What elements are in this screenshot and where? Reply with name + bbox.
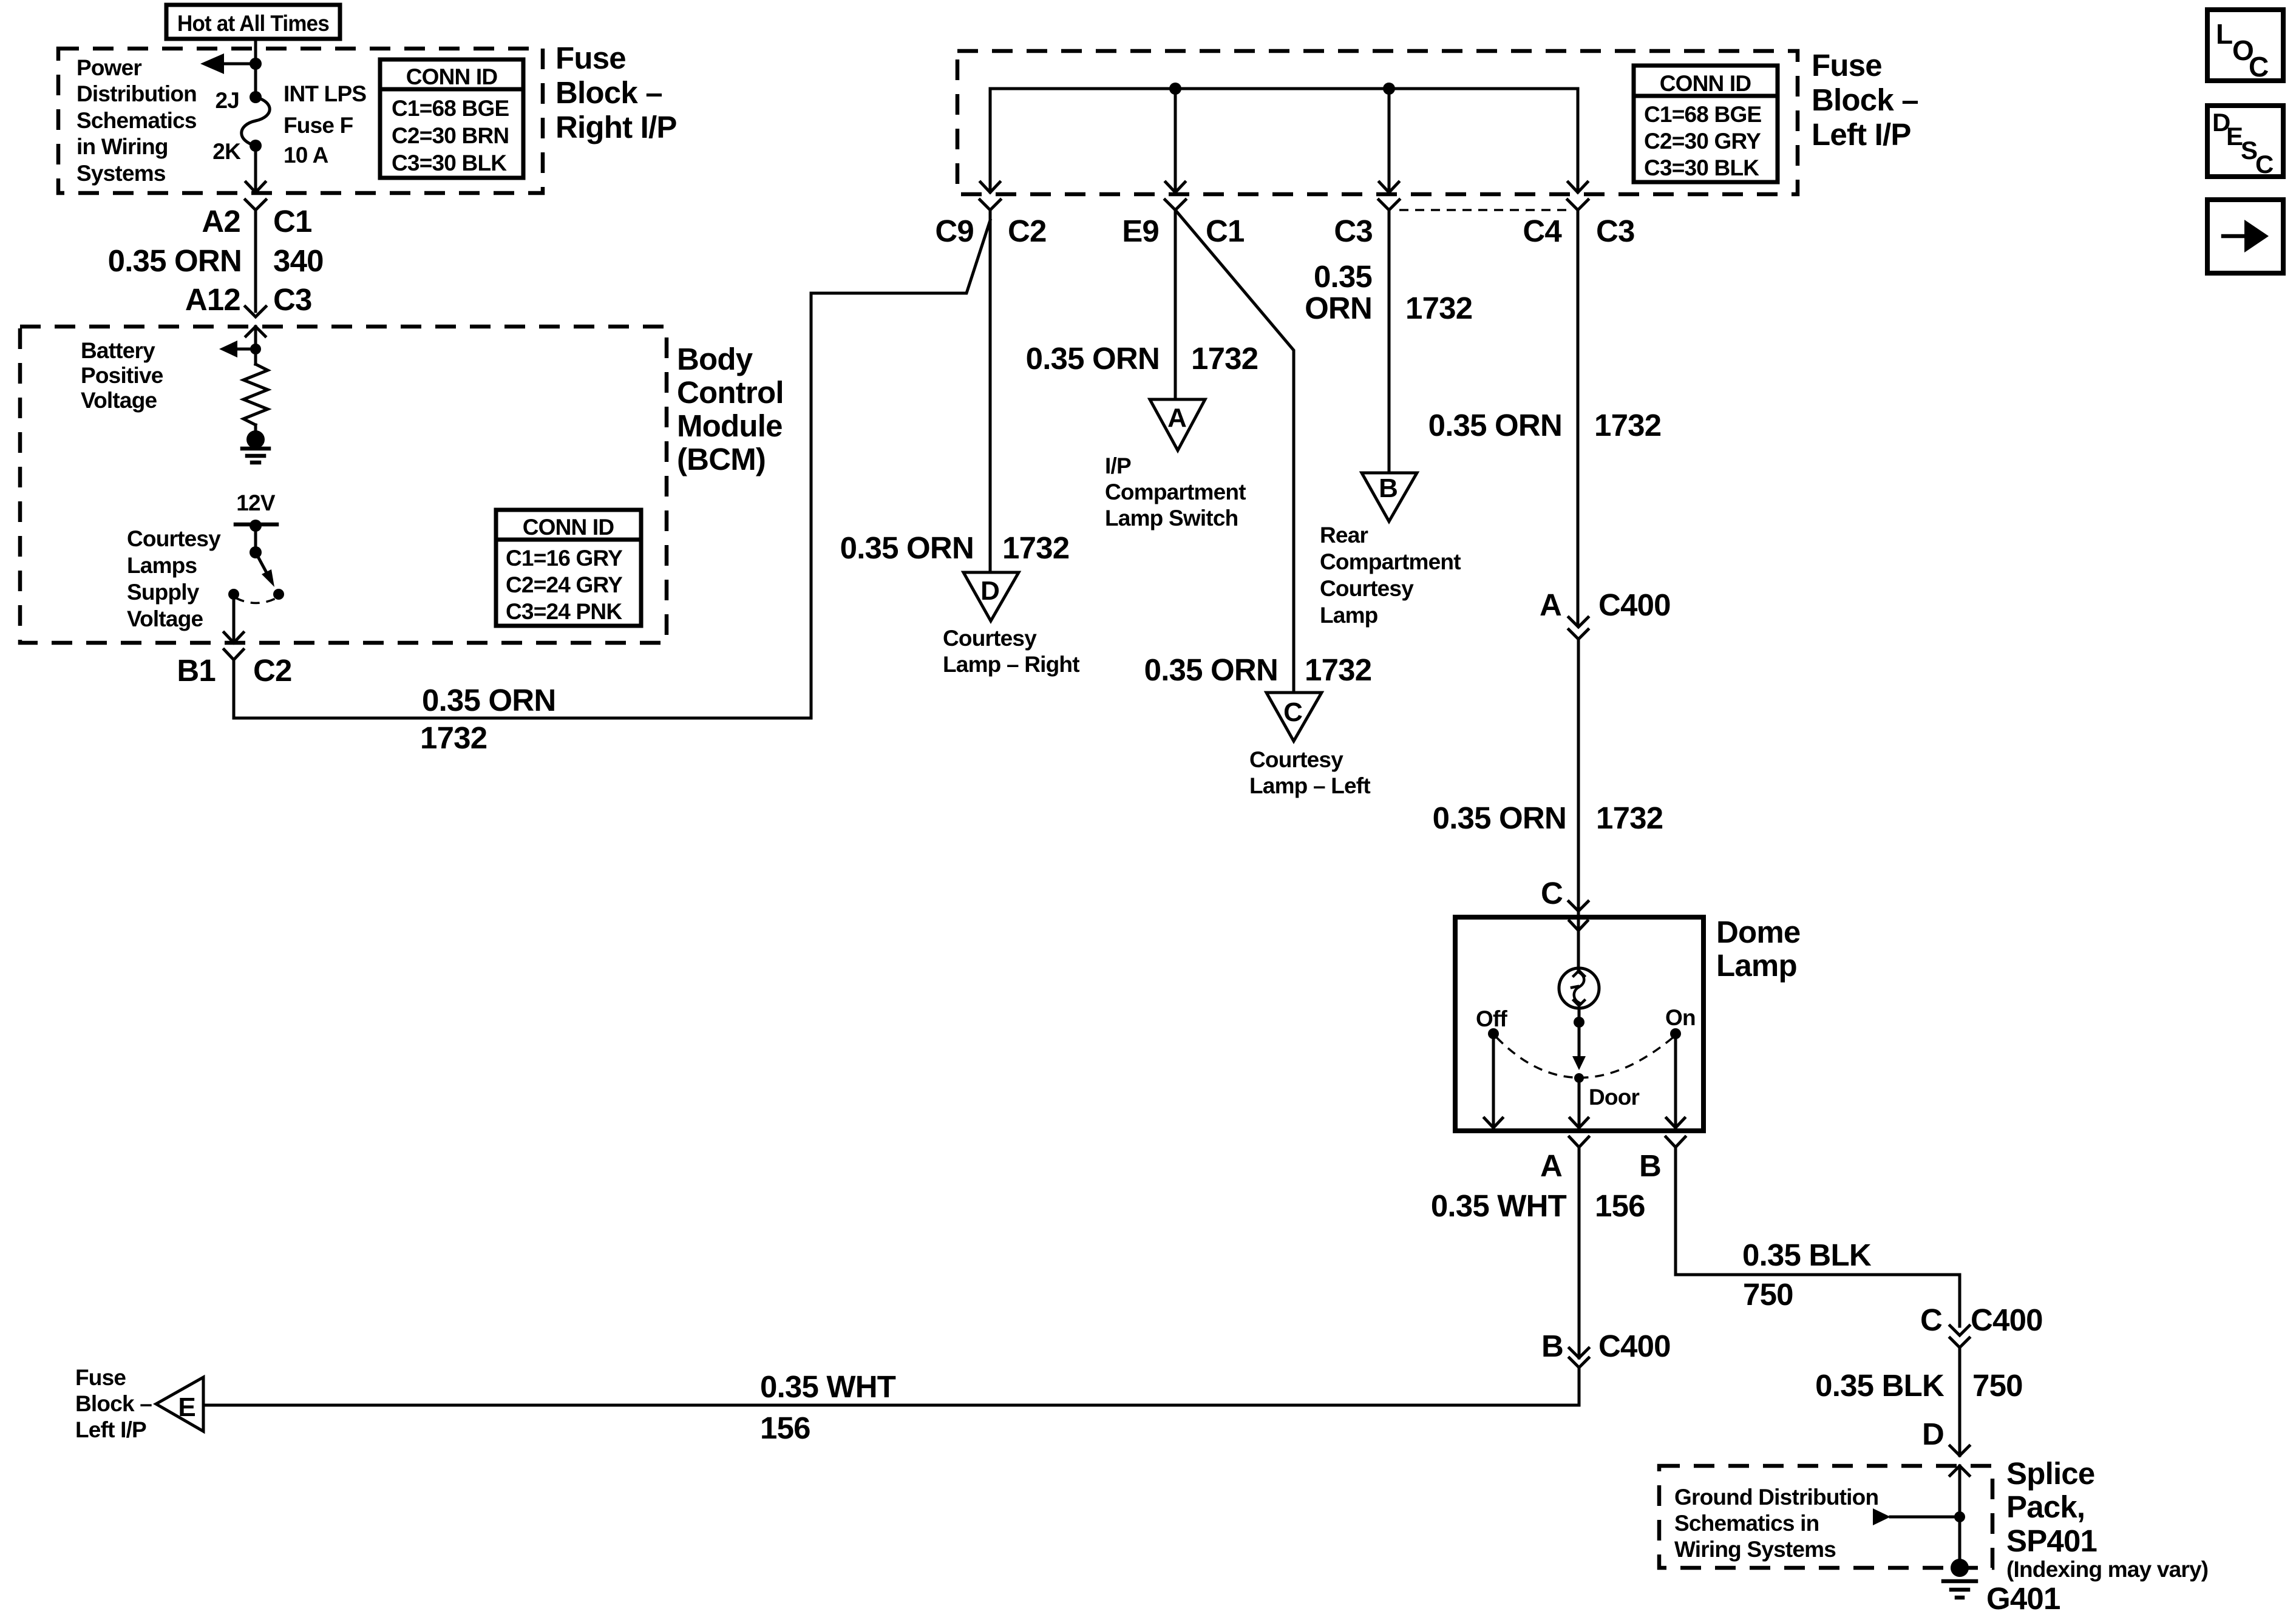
svg-text:C: C	[1541, 876, 1563, 910]
svg-text:1732: 1732	[1594, 408, 1661, 442]
svg-text:INT LPS: INT LPS	[284, 81, 366, 106]
wire: pin B down and right to C/C400	[1676, 1147, 1960, 1326]
svg-text:C4: C4	[1523, 214, 1562, 248]
svg-text:C2=30 GRY: C2=30 GRY	[1644, 129, 1761, 154]
svg-text:D: D	[1922, 1417, 1944, 1451]
junction node battery positive	[250, 344, 261, 354]
in-line connector B / C400	[1569, 1348, 1589, 1358]
svg-text:Fuse: Fuse	[75, 1365, 126, 1390]
svg-text:C400: C400	[1598, 1329, 1671, 1363]
wire: long 0.35 WHT 156 run to fuse block left	[205, 1404, 1579, 1407]
connector arrow exiting BCM at B1 (down)	[224, 632, 243, 643]
svg-text:156: 156	[1595, 1188, 1645, 1223]
wire: splice pack internal	[1958, 1466, 1961, 1568]
svg-text:Systems: Systems	[76, 161, 166, 186]
svg-text:Fuse: Fuse	[1812, 48, 1882, 83]
wire: Off contact to box edge	[1492, 1038, 1495, 1128]
connector female half pin B	[1666, 1137, 1685, 1147]
svg-text:C3: C3	[273, 282, 312, 317]
svg-text:Lamp – Left: Lamp – Left	[1249, 773, 1370, 798]
wire: branch to battery positive voltage	[237, 348, 256, 351]
wire: resistor to ground	[254, 425, 257, 433]
connector male chevron at D wire end	[1950, 1446, 1969, 1456]
connector female half C9	[980, 200, 1000, 210]
svg-text:Off: Off	[1476, 1006, 1508, 1031]
svg-text:CONN ID: CONN ID	[523, 515, 614, 540]
svg-text:0.35 ORN: 0.35 ORN	[1026, 341, 1160, 376]
svg-text:E9: E9	[1122, 214, 1159, 248]
wire: C400 to dome lamp	[1577, 639, 1580, 911]
junction node below bulb	[1574, 1017, 1584, 1028]
svg-text:CONN ID: CONN ID	[406, 64, 498, 89]
svg-text:Left I/P: Left I/P	[1812, 117, 1911, 152]
wire: B1 down, right, and up to C9 (0.35 ORN 1732)	[234, 220, 990, 718]
svg-text:C9: C9	[935, 214, 974, 248]
svg-text:Power: Power	[76, 55, 141, 80]
svg-text:Ground Distribution: Ground Distribution	[1674, 1485, 1878, 1510]
junction node on splice wire	[1954, 1511, 1965, 1522]
svg-text:Fuse: Fuse	[555, 41, 626, 75]
svg-text:C2=24 GRY: C2=24 GRY	[506, 572, 623, 597]
triangle C: courtesy lamp left	[1266, 693, 1322, 741]
svg-text:0.35 WHT: 0.35 WHT	[760, 1369, 896, 1404]
box: Dome Lamp	[1455, 917, 1703, 1131]
svg-text:B: B	[1541, 1329, 1563, 1363]
svg-text:1732: 1732	[1191, 341, 1258, 376]
svg-text:C400: C400	[1598, 588, 1671, 622]
triangle B: rear compartment courtesy lamp	[1362, 473, 1417, 521]
in-line connector C / C400	[1950, 1326, 1969, 1335]
svg-text:L: L	[2216, 18, 2233, 50]
svg-text:0.35 ORN: 0.35 ORN	[1428, 408, 1562, 442]
svg-text:Lamp: Lamp	[1716, 948, 1797, 983]
wire: C9 to courtesy lamp right triangle	[989, 210, 992, 572]
contact: On	[1670, 1028, 1681, 1039]
svg-text:Compartment: Compartment	[1320, 549, 1461, 574]
box: LOC page reference	[2207, 10, 2283, 81]
svg-text:ORN: ORN	[1305, 291, 1372, 325]
svg-text:Fuse F: Fuse F	[284, 113, 353, 138]
svg-text:0.35 ORN: 0.35 ORN	[840, 531, 974, 565]
svg-text:I/P: I/P	[1105, 453, 1131, 478]
junction node on hot feed	[250, 58, 262, 70]
wire: E9 to I/P compartment lamp switch triangle	[1174, 210, 1177, 399]
wire: branch to power distribution schematics	[223, 63, 256, 66]
svg-text:Dome: Dome	[1716, 915, 1801, 949]
svg-text:Splice: Splice	[2006, 1456, 2094, 1491]
svg-text:B1: B1	[177, 653, 216, 688]
svg-text:(BCM): (BCM)	[677, 442, 766, 476]
svg-text:C: C	[2255, 150, 2274, 178]
svg-text:C: C	[2249, 51, 2269, 83]
svg-text:340: 340	[273, 243, 324, 278]
svg-text:E: E	[178, 1392, 195, 1422]
arrow: battery positive voltage (points left)	[219, 341, 237, 358]
dashed box: Fuse Block - Left I/P	[957, 51, 1798, 194]
wire: hot feed from Hot box down into fuse block	[254, 39, 257, 97]
wire: reference arrow to splice	[1890, 1516, 1960, 1519]
svg-text:C1: C1	[1206, 214, 1245, 248]
svg-text:On: On	[1665, 1005, 1696, 1030]
svg-text:1732: 1732	[420, 720, 487, 755]
svg-text:0.35 ORN: 0.35 ORN	[1433, 801, 1566, 835]
triangle A: I/P compartment lamp switch	[1150, 399, 1205, 450]
svg-text:C400: C400	[1971, 1303, 2043, 1337]
svg-text:Courtesy: Courtesy	[1320, 576, 1414, 601]
wire: Door contact to pin A	[1578, 1082, 1581, 1128]
wire: C4 down to C400 connector	[1577, 210, 1580, 625]
connector arrow entering BCM (points up)	[246, 327, 265, 336]
svg-text:Module: Module	[677, 408, 783, 443]
svg-text:0.35 BLK: 0.35 BLK	[1815, 1368, 1944, 1403]
svg-text:SP401: SP401	[2006, 1524, 2097, 1558]
svg-text:D: D	[980, 576, 1000, 606]
svg-text:0.35 BLK: 0.35 BLK	[1742, 1238, 1872, 1272]
svg-text:C: C	[1283, 697, 1303, 727]
svg-text:Block –: Block –	[75, 1391, 152, 1416]
svg-text:Rear: Rear	[1320, 523, 1368, 547]
triangle E: fuse block left I/P	[156, 1377, 203, 1431]
svg-text:A2: A2	[202, 204, 240, 239]
dashed box: Fuse Block - Right I/P	[58, 49, 543, 193]
ground: BCM internal	[246, 430, 265, 449]
arrow: to power distribution schematics (points left)	[200, 53, 224, 74]
svg-text:A12: A12	[185, 282, 240, 317]
dashed arc: dome switch travel Off-Door-On	[1496, 1037, 1673, 1078]
triangle D: courtesy lamp right	[963, 572, 1019, 621]
connector female half pin A	[1569, 1137, 1589, 1147]
connector arrow: exit of fuse block (down)	[246, 182, 265, 192]
svg-text:Positive: Positive	[81, 363, 163, 388]
arrow: ground distribution reference (points right)	[1873, 1508, 1890, 1525]
junction node on bus at E9	[1169, 83, 1181, 95]
svg-text:Schematics: Schematics	[76, 108, 197, 133]
svg-text:Door: Door	[1589, 1085, 1640, 1110]
connector arrow entering splice pack (up)	[1950, 1466, 1969, 1476]
wire: pin C into bulb	[1577, 911, 1580, 970]
svg-text:C3=24 PNK: C3=24 PNK	[506, 599, 622, 624]
dashed box: Splice Pack SP401 / Ground Distribution	[1659, 1466, 1992, 1568]
svg-text:Block –: Block –	[1812, 83, 1918, 117]
connector female half C3	[1379, 200, 1399, 210]
contact: Door	[1574, 1073, 1584, 1083]
svg-text:1732: 1732	[1596, 801, 1663, 835]
thin dashed link between C3 and C4 connector halves	[1399, 209, 1567, 211]
svg-text:Courtesy: Courtesy	[1249, 747, 1343, 772]
svg-text:Wiring Systems: Wiring Systems	[1674, 1537, 1836, 1562]
connector female half at dome lamp pin C	[1569, 901, 1588, 911]
box: Hot at All Times	[166, 5, 340, 39]
contact: Off	[1488, 1028, 1499, 1039]
svg-text:Voltage: Voltage	[127, 606, 203, 631]
connector arrow entering dome lamp (down)	[1569, 921, 1588, 931]
supply bar: 12V	[236, 523, 277, 527]
wire: diagonal from E9 connector to courtesy lamp left	[1175, 210, 1294, 693]
wire: drop to C3	[1388, 89, 1391, 192]
svg-text:C2: C2	[1008, 214, 1047, 248]
svg-text:Voltage: Voltage	[81, 388, 157, 413]
svg-text:Body: Body	[677, 342, 753, 376]
wire: bulb to door switch	[1578, 1008, 1581, 1059]
svg-text:1732: 1732	[1002, 531, 1069, 565]
svg-text:Lamp: Lamp	[1320, 603, 1378, 628]
svg-text:C1: C1	[273, 204, 312, 239]
svg-text:C1=68 BGE: C1=68 BGE	[1644, 102, 1761, 127]
svg-text:B: B	[1379, 473, 1398, 503]
wire: drop to E9	[1174, 89, 1177, 192]
svg-text:C3=30 BLK: C3=30 BLK	[392, 151, 507, 175]
svg-text:0.35: 0.35	[1314, 259, 1372, 294]
connector arrow: C3 right exit (down)	[1568, 182, 1588, 192]
ground: G401	[1951, 1559, 1969, 1577]
svg-text:0.35 ORN: 0.35 ORN	[1144, 653, 1278, 687]
svg-text:CONN ID: CONN ID	[1660, 71, 1751, 96]
junction node on bus at C3	[1383, 83, 1395, 95]
wire: A2 to A12 (0.35 ORN 340)	[254, 210, 257, 311]
svg-text:Hot at All Times: Hot at All Times	[177, 11, 329, 36]
svg-text:C3=30 BLK: C3=30 BLK	[1644, 155, 1759, 180]
wire: BCM entry to resistor	[254, 327, 257, 364]
svg-text:A: A	[1540, 588, 1561, 622]
svg-text:C2: C2	[253, 653, 292, 688]
svg-text:Block –: Block –	[555, 75, 662, 110]
switch: courtesy lamps (pivot, blade, contacts)	[250, 520, 262, 532]
connector arrow: C2 exit (down)	[980, 182, 1000, 192]
svg-text:Lamp – Right: Lamp – Right	[943, 652, 1079, 677]
connector female half C4	[1567, 200, 1588, 210]
svg-text:Lamp Switch: Lamp Switch	[1105, 506, 1238, 531]
svg-text:Pack,: Pack,	[2006, 1490, 2085, 1524]
svg-text:Courtesy: Courtesy	[127, 526, 221, 551]
svg-text:Right I/P: Right I/P	[555, 110, 677, 144]
connector arrow: C3 exit (down)	[1379, 182, 1399, 192]
bulb: dome lamp	[1559, 968, 1599, 1008]
svg-text:12V: 12V	[236, 490, 276, 515]
dashed arc: switch travel	[236, 598, 277, 603]
svg-text:156: 156	[760, 1411, 810, 1445]
wire: fuse to block exit	[254, 146, 257, 192]
svg-text:Courtesy: Courtesy	[943, 626, 1037, 651]
svg-text:0.35 ORN: 0.35 ORN	[108, 243, 242, 278]
svg-text:C2=30 BRN: C2=30 BRN	[392, 123, 509, 148]
svg-text:C1=16 GRY: C1=16 GRY	[506, 546, 623, 571]
svg-text:A: A	[1167, 403, 1187, 433]
svg-text:C3: C3	[1334, 214, 1373, 248]
box: DESC page reference	[2207, 106, 2283, 177]
svg-text:Left I/P: Left I/P	[75, 1417, 146, 1442]
svg-text:Lamps: Lamps	[127, 553, 197, 578]
svg-text:Supply: Supply	[127, 580, 200, 605]
connector female half below BCM (B1/C2)	[224, 649, 243, 660]
connector female half below fuse block (A2/C1)	[245, 200, 266, 210]
svg-text:Compartment: Compartment	[1105, 480, 1246, 504]
switch blade: dome lamp (points down at Door contact)	[1572, 1056, 1586, 1070]
svg-text:(Indexing may vary): (Indexing may vary)	[2006, 1557, 2208, 1582]
svg-text:B: B	[1639, 1148, 1661, 1183]
fuse F: INT LPS 10 A (S-curve element with terminal dots)	[250, 91, 262, 103]
connector male chevron at A12 wire end	[245, 307, 266, 317]
arrow: next page (points right)	[2223, 234, 2246, 239]
svg-text:Schematics in: Schematics in	[1674, 1511, 1819, 1536]
svg-text:750: 750	[1743, 1277, 1793, 1312]
svg-text:750: 750	[1972, 1368, 2023, 1403]
in-line connector A / C400	[1569, 617, 1588, 627]
connector female half E9	[1165, 200, 1186, 210]
svg-text:2J: 2J	[215, 88, 239, 113]
svg-text:1732: 1732	[1405, 291, 1472, 325]
box: next page arrow	[2207, 200, 2283, 273]
resistor: BCM internal pull-up	[243, 364, 268, 425]
CONN ID table (fuse block right)	[380, 59, 523, 178]
wire: switch output to BCM exit	[233, 598, 236, 642]
wire: pin A down to B/C400 connector	[1578, 1147, 1581, 1358]
svg-text:Distribution: Distribution	[76, 81, 197, 106]
svg-text:0.35 ORN: 0.35 ORN	[422, 683, 555, 717]
svg-text:in Wiring: in Wiring	[76, 134, 168, 159]
svg-text:C3: C3	[1596, 214, 1635, 248]
svg-text:1732: 1732	[1305, 653, 1371, 687]
svg-text:C: C	[1920, 1303, 1942, 1337]
wire: C3 to rear compartment courtesy lamp triangle	[1388, 210, 1391, 473]
connector arrow: C1 exit (down)	[1166, 182, 1185, 192]
dashed box: Body Control Module (BCM)	[20, 327, 667, 643]
svg-text:10 A: 10 A	[284, 143, 328, 168]
svg-text:0.35 WHT: 0.35 WHT	[1431, 1188, 1567, 1223]
svg-text:G401: G401	[1986, 1581, 2060, 1616]
CONN ID table (fuse block left)	[1634, 66, 1778, 182]
svg-text:Battery: Battery	[81, 338, 155, 363]
svg-text:A: A	[1540, 1148, 1562, 1183]
wire: On contact to pin B	[1674, 1038, 1677, 1128]
svg-text:Control: Control	[677, 375, 784, 410]
bus: fuse block left internal feed	[990, 89, 1578, 192]
wire: B/C400 down to long run	[1578, 1368, 1581, 1405]
CONN ID table (BCM)	[496, 510, 641, 626]
svg-text:2K: 2K	[212, 139, 241, 164]
wire: C/C400 down to splice pack	[1958, 1347, 1961, 1456]
svg-text:C1=68 BGE: C1=68 BGE	[392, 96, 509, 121]
